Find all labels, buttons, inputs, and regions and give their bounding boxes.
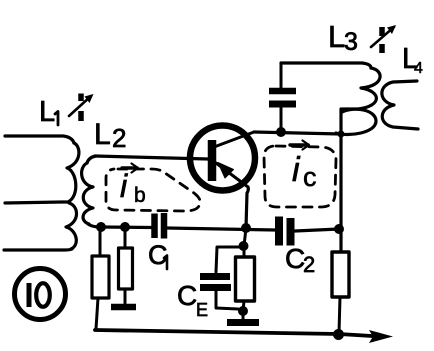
svg-text:b: b: [134, 184, 146, 207]
svg-text:L: L: [39, 96, 55, 128]
loop ic: [264, 146, 336, 207]
wire right vertical: [339, 109, 342, 252]
svg-text:E: E: [196, 300, 208, 320]
ground R2: [111, 304, 136, 311]
wire base lead: [95, 156, 208, 159]
resistor R2: [119, 229, 133, 303]
inductor L4: [382, 81, 418, 129]
coupling arrow k34: [371, 25, 396, 53]
node emitter: [241, 223, 251, 233]
node collector-cap: [276, 127, 286, 137]
node B: [120, 222, 130, 232]
transistor Q1: [190, 126, 255, 191]
svg-text:L: L: [94, 118, 111, 151]
coupling arrow k12: [69, 94, 94, 122]
svg-text:i: i: [120, 168, 128, 204]
node rail: [333, 329, 344, 340]
svg-text:C: C: [148, 240, 168, 270]
wire collector: [254, 132, 341, 134]
node collector-right: [338, 131, 345, 138]
capacitor CE: [200, 277, 238, 310]
node RE-bottom: [238, 306, 248, 316]
wire emitter down: [246, 187, 248, 228]
loop ib: [106, 169, 200, 211]
resistor RE: [236, 246, 255, 311]
svg-text:4: 4: [414, 60, 423, 77]
svg-text:2: 2: [112, 123, 126, 153]
resistor R1: [92, 229, 109, 329]
svg-text:2: 2: [303, 252, 315, 277]
inductor L1: [4, 136, 79, 250]
wire emitter branch: [244, 228, 246, 246]
svg-text:L: L: [328, 19, 345, 54]
figure number 10: [15, 269, 66, 320]
capacitor C2: [279, 217, 291, 246]
wire tank top: [281, 63, 371, 68]
loop ic arrow: [290, 143, 308, 146]
capacitor C1: [155, 213, 165, 239]
wire to CE: [216, 247, 243, 272]
svg-text:c: c: [303, 162, 317, 192]
svg-text:3: 3: [344, 28, 358, 56]
svg-text:i: i: [292, 151, 301, 189]
ground RE: [242, 311, 245, 319]
node A: [96, 222, 106, 232]
node C2-right: [334, 224, 344, 234]
wire main horizontal: [100, 225, 151, 229]
loop ib arrow: [122, 166, 137, 169]
svg-text:C: C: [177, 280, 197, 311]
inductor L3: [336, 68, 380, 135]
resistor R3: [332, 252, 349, 333]
capacitor C3 tank: [269, 63, 296, 132]
node emitter2: [239, 241, 249, 251]
wire bottom rail: [95, 330, 372, 336]
inductor L2: [82, 156, 100, 227]
arrow output: [369, 330, 393, 343]
